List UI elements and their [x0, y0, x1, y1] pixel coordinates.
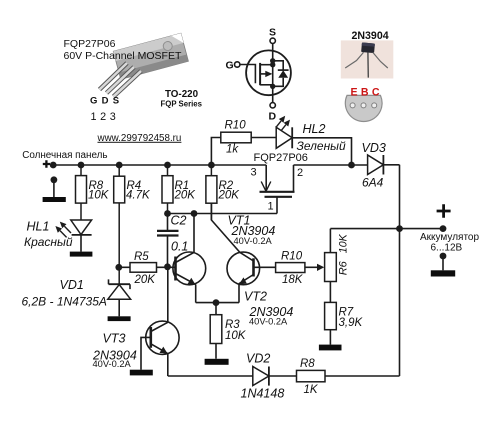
svg-text:60V P-Channel MOSFET: 60V P-Channel MOSFET [64, 50, 182, 62]
svg-text:40V-0.2A: 40V-0.2A [93, 359, 132, 369]
gate lead wire [240, 65, 256, 84]
svg-text:D: D [269, 111, 277, 123]
TO-220 legs [100, 63, 142, 97]
wire VD2 to R8 [269, 375, 297, 377]
ground bar VT3 base [130, 370, 153, 376]
svg-text:1k: 1k [226, 144, 239, 156]
svg-text:6A4: 6A4 [362, 176, 384, 190]
TO-220 package drawing (FQP27P06 photo) [100, 33, 189, 96]
node C2 bottom / VT3 collector [164, 263, 171, 270]
svg-text:3: 3 [251, 167, 257, 179]
svg-text:Красный: Красный [24, 235, 73, 249]
svg-text:1N4148: 1N4148 [241, 387, 285, 401]
svg-text:www.299792458.ru: www.299792458.ru [97, 133, 182, 144]
HL1 light arrows [55, 222, 71, 238]
power MOSFET FQP27P06 symbol [260, 165, 295, 214]
svg-text:40V-0.2A: 40V-0.2A [234, 236, 273, 246]
battery minus terminal [431, 253, 455, 277]
wire right vertical (VD3 cathode down to bottom) [399, 165, 401, 376]
wire VT1/VT2 emitters [196, 302, 239, 304]
ground bar R7 [319, 345, 342, 351]
svg-text:FQP27P06: FQP27P06 [254, 152, 308, 164]
resistor R1 [162, 165, 173, 214]
MOSFET symbol (top middle) [235, 38, 291, 108]
diode VD2 [253, 367, 269, 386]
resistor R4 [114, 165, 125, 284]
node VD3 line / battery rail [396, 225, 403, 232]
channel stubs [260, 64, 273, 66]
pin 2 drain lead [293, 165, 295, 192]
node battery + [440, 225, 447, 232]
gate bar [265, 196, 293, 198]
svg-text:VD1: VD1 [60, 278, 84, 292]
svg-text:FQP27P06: FQP27P06 [64, 38, 116, 50]
LED HL2 [276, 127, 292, 148]
body diode branch [273, 61, 284, 87]
wire bottom (VT3 emitter to VD2) [168, 375, 253, 377]
svg-text:6...12В: 6...12В [431, 243, 463, 254]
svg-text:20K: 20K [218, 190, 241, 202]
node solar + (dot) [50, 162, 57, 169]
node R5 left / VD1 [115, 264, 122, 271]
svg-text:Зеленый: Зеленый [297, 139, 347, 153]
svg-text:VT3: VT3 [103, 332, 126, 346]
D lead wire [272, 86, 274, 102]
svg-text:G: G [226, 60, 234, 72]
resistor R7 [325, 302, 337, 344]
S lead wire [272, 44, 274, 87]
node HL2/rail junction [348, 162, 355, 169]
svg-text:Солнечная панель: Солнечная панель [22, 150, 107, 161]
svg-text:10K: 10K [88, 190, 110, 202]
resistor R2 [206, 165, 217, 220]
svg-text:1 2 3: 1 2 3 [91, 111, 117, 123]
svg-text:S: S [269, 27, 276, 39]
svg-text:18K: 18K [282, 274, 304, 286]
svg-text:R5: R5 [134, 251, 149, 263]
HL2 light arrows [276, 116, 290, 131]
svg-text:R10: R10 [281, 251, 303, 263]
node gate/R1/C2 [164, 210, 171, 217]
node R8 top [78, 162, 85, 169]
ground bar HL1 [70, 252, 93, 257]
transistor VT3 [141, 267, 179, 376]
node VT1 collector [191, 210, 198, 217]
svg-text:C2: C2 [171, 214, 187, 228]
solar panel plus sign [43, 160, 50, 167]
D terminal [270, 103, 275, 108]
wire gate line (pin1 to R1/C2 node) [168, 213, 278, 215]
channel bar [260, 191, 295, 193]
wire pin2 to VD3 [294, 164, 368, 166]
ground bar R3 [205, 359, 229, 365]
2N3904 photo [341, 40, 394, 78]
diode VD3 [368, 155, 384, 175]
wire VD3 to right vertical [383, 164, 399, 166]
svg-text:20K: 20K [134, 274, 157, 286]
G terminal [235, 62, 240, 67]
resistor R8 [76, 165, 87, 220]
svg-text:Аккумулятор: Аккумулятор [420, 232, 479, 243]
svg-text:1K: 1K [304, 384, 319, 396]
mosfet circle [246, 50, 291, 95]
resistor R10 (18K) [276, 263, 305, 273]
svg-text:10K: 10K [225, 330, 247, 342]
resistor R10 (1k) [221, 132, 251, 143]
svg-text:10K: 10K [337, 233, 349, 253]
node R2 / R10 branch [208, 162, 215, 169]
LED HL1 [71, 220, 92, 252]
arrow stub [260, 73, 266, 75]
pin 3 source lead with arrow [265, 165, 267, 190]
resistor R8 (1K) [297, 370, 326, 381]
svg-text:E B C: E B C [351, 86, 380, 98]
node R1 top [164, 162, 171, 169]
wire battery rail [330, 228, 443, 230]
svg-text:4.7K: 4.7K [126, 190, 151, 202]
svg-text:2: 2 [297, 167, 303, 179]
channel plate [259, 63, 261, 85]
svg-text:R10: R10 [225, 120, 247, 132]
transistor VT1 [173, 214, 206, 303]
svg-text:HL2: HL2 [303, 122, 326, 136]
solar panel minus terminal [43, 176, 66, 202]
wire R10 wiper arrow [305, 266, 318, 268]
svg-text:VD2: VD2 [246, 352, 270, 366]
svg-text:VD3: VD3 [362, 141, 386, 155]
zener diode VD1 [108, 279, 131, 316]
resistor R3 [210, 303, 222, 359]
wire top rail [53, 164, 266, 166]
svg-text:G D S: G D S [90, 96, 120, 107]
svg-text:3,9K: 3,9K [339, 317, 364, 329]
TO-92 pinout bottom view [345, 95, 382, 121]
wire R10 branch [211, 138, 220, 166]
svg-text:40V-0.2A: 40V-0.2A [249, 316, 288, 326]
svg-text:HL1: HL1 [27, 220, 50, 234]
ground bar VD1 [108, 316, 131, 321]
resistor R5 [119, 263, 176, 273]
svg-text:1: 1 [268, 201, 274, 213]
pin 1 gate lead [276, 197, 278, 214]
transistor VT2 (mirrored) [211, 203, 275, 302]
svg-text:20K: 20K [174, 190, 197, 202]
battery plus sign [437, 204, 451, 218]
svg-text:0.1: 0.1 [171, 240, 188, 254]
svg-text:2N3904: 2N3904 [352, 30, 389, 42]
svg-text:FQP Series: FQP Series [161, 100, 203, 109]
S terminal [270, 38, 275, 43]
node R4 top [116, 162, 123, 169]
svg-text:6,2B - 1N4735A: 6,2B - 1N4735A [22, 295, 107, 309]
wire R10 to HL2 [251, 137, 276, 139]
wire HL2 cathode to rail [292, 138, 351, 165]
wire R8 to right vertical [325, 375, 400, 377]
potentiometer R6 [325, 229, 337, 303]
svg-text:TO-220: TO-220 [165, 89, 199, 100]
node R3 top [213, 299, 220, 306]
svg-text:VT2: VT2 [244, 290, 267, 304]
junction dots on S and D [270, 58, 275, 63]
capacitor C2 [157, 214, 179, 267]
svg-text:R8: R8 [300, 358, 315, 370]
svg-text:R6: R6 [337, 260, 349, 275]
